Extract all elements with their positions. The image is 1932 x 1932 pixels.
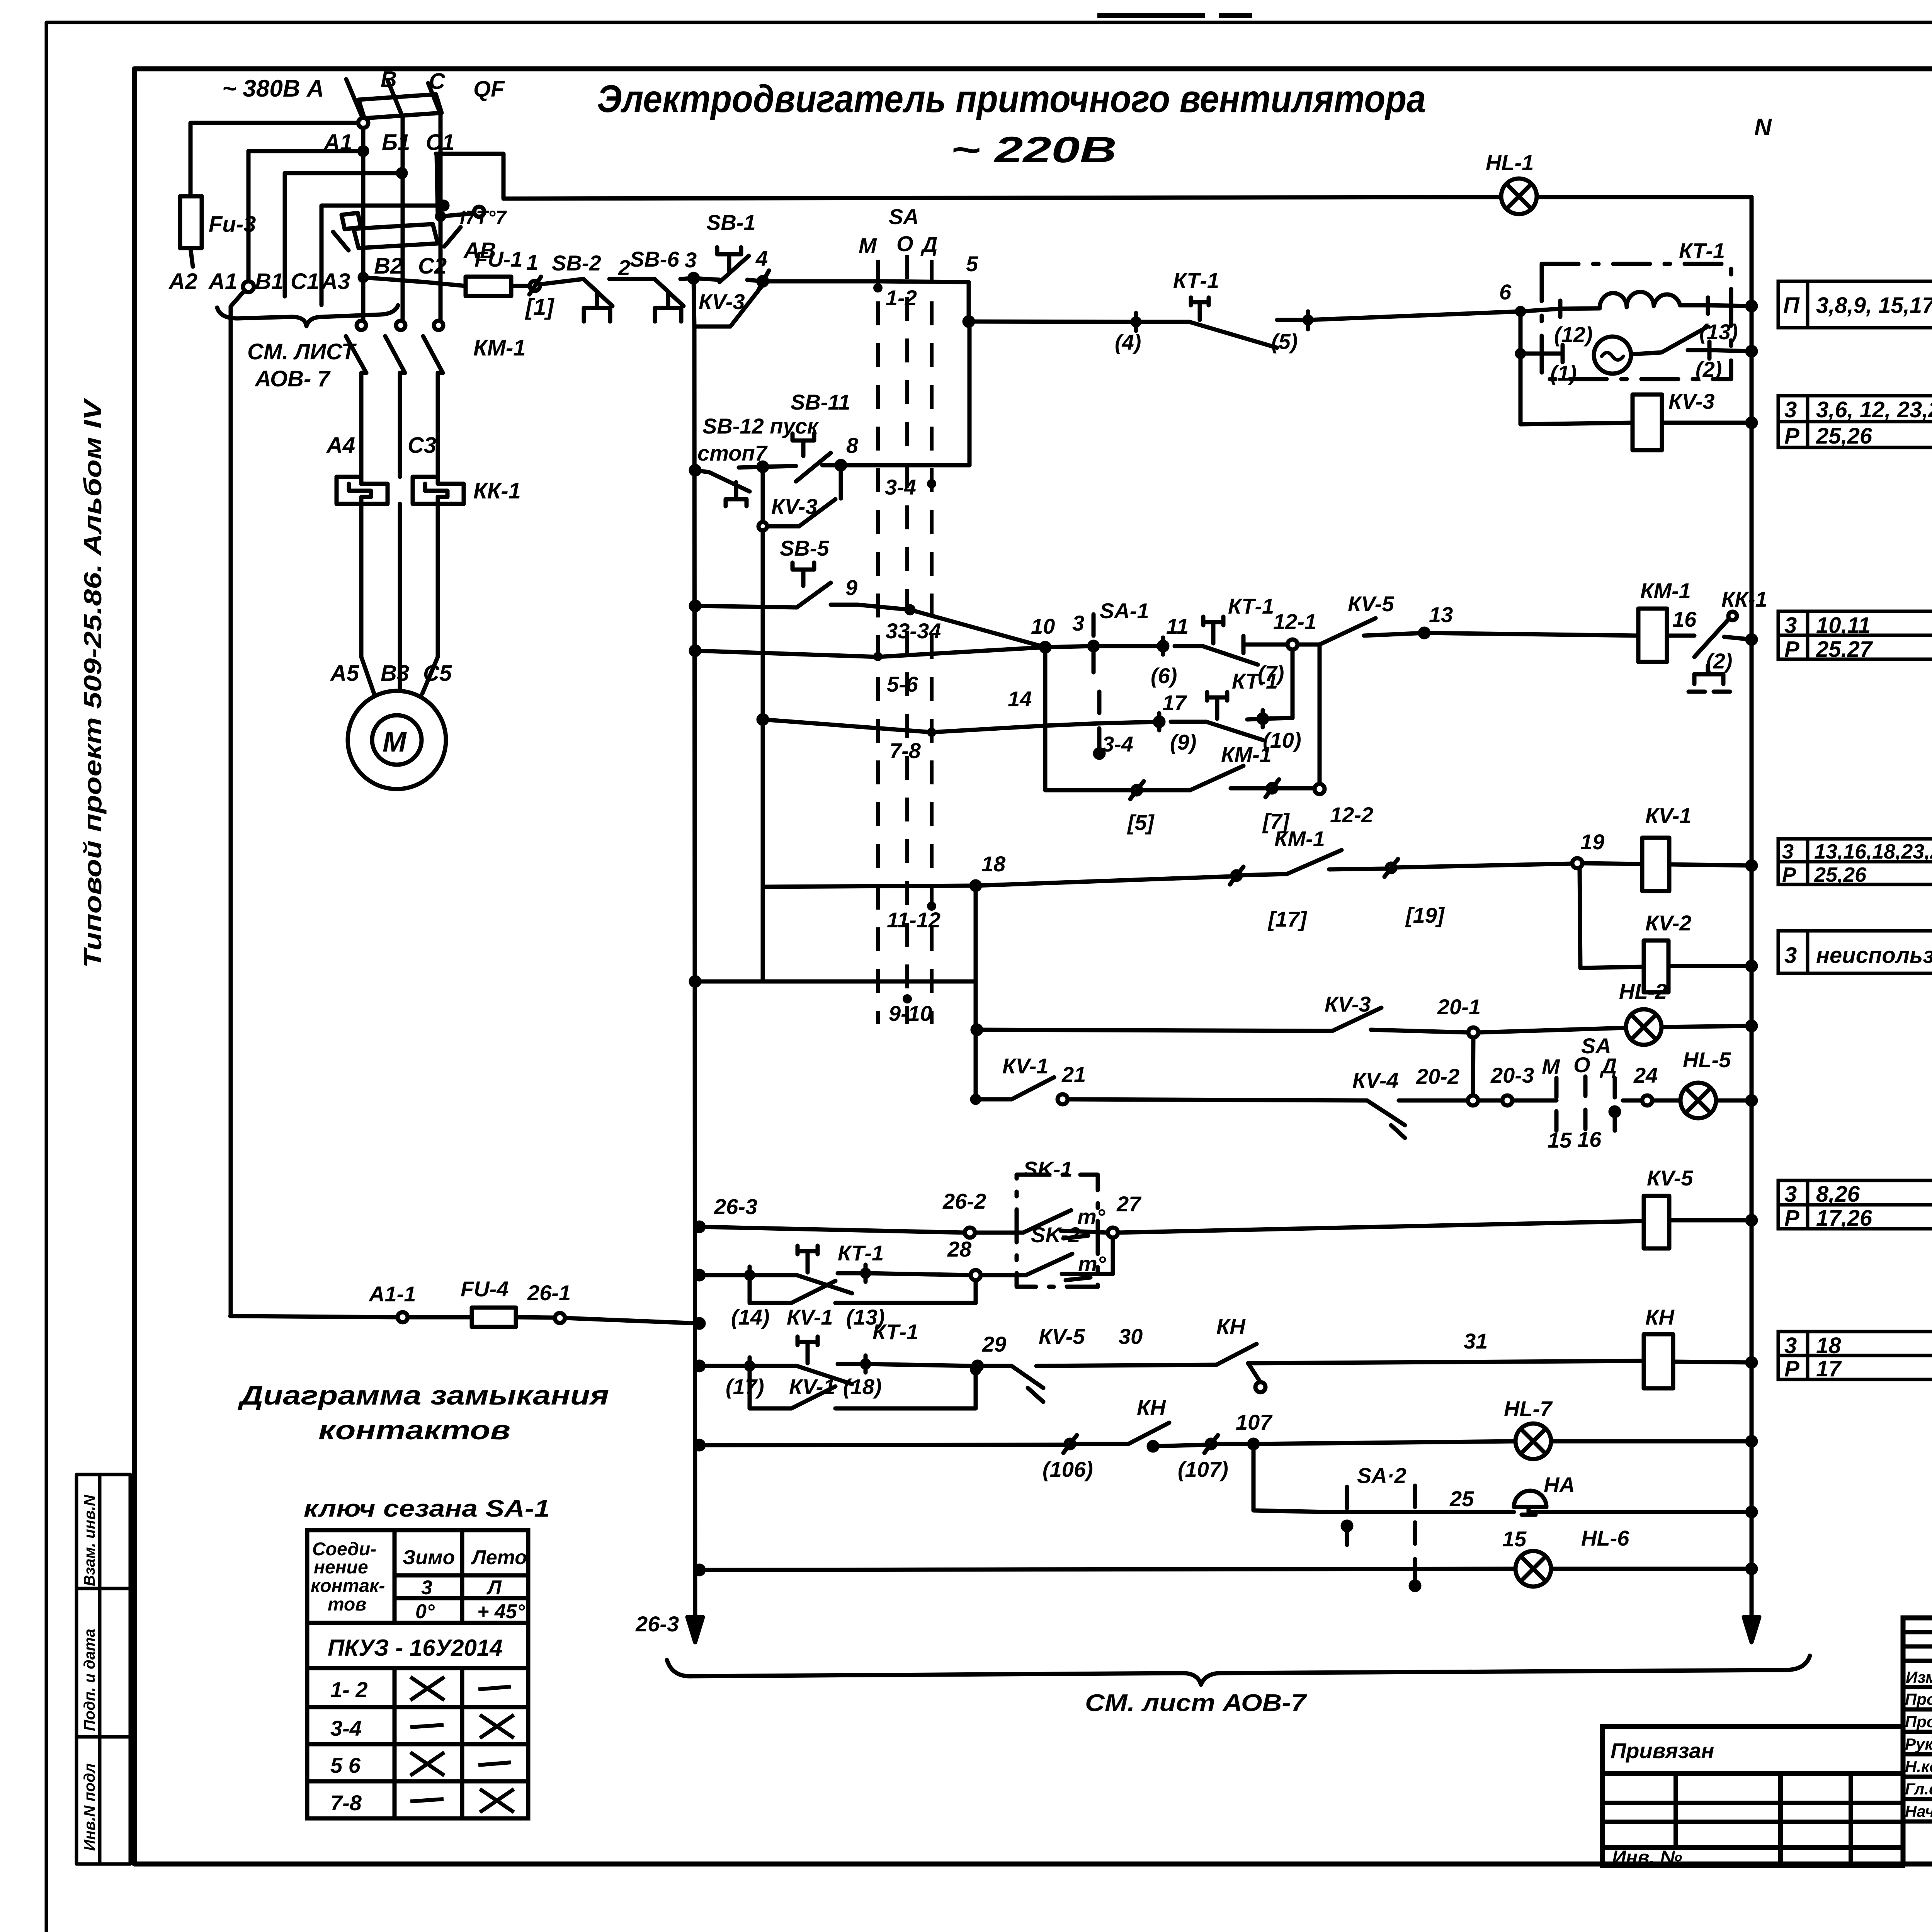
svg-text:Н.контр.: Н.контр. xyxy=(1905,1757,1932,1776)
svg-text:3: 3 xyxy=(1784,1182,1797,1207)
svg-text:25: 25 xyxy=(1449,1486,1474,1511)
wire 27 to KV-5 coil xyxy=(1118,1221,1644,1233)
svg-text:(17): (17) xyxy=(726,1374,764,1399)
svg-text:КV-1: КV-1 xyxy=(1645,803,1692,828)
wire down to KV-3 coil xyxy=(1520,354,1633,424)
wire C1 stub xyxy=(321,206,444,305)
svg-text:5: 5 xyxy=(966,252,978,276)
svg-text:3-4: 3-4 xyxy=(885,475,916,499)
rung 25 bell xyxy=(1327,1510,1514,1514)
svg-text:16: 16 xyxy=(1577,1127,1602,1151)
wire to FU-1 xyxy=(363,277,466,286)
contact SK-2 xyxy=(981,1273,1026,1277)
phase A wire xyxy=(361,118,366,321)
svg-text:КТ-1: КТ-1 xyxy=(1679,238,1725,263)
node 6 xyxy=(1517,308,1524,315)
svg-text:12-1: 12-1 xyxy=(1273,609,1316,634)
top rail to N xyxy=(436,154,1752,199)
svg-text:С5: С5 xyxy=(423,661,452,686)
wire rung 5-6 xyxy=(969,321,1136,322)
contact KV-4 xyxy=(1367,1100,1405,1125)
node C tap xyxy=(398,169,406,177)
svg-text:16: 16 xyxy=(1672,607,1697,631)
N rail arrow xyxy=(1750,1571,1754,1634)
svg-text:КV-4: КV-4 xyxy=(1352,1068,1399,1092)
circuit breaker QF body xyxy=(359,94,442,118)
svg-text:33-34: 33-34 xyxy=(886,619,941,643)
svg-text:(18): (18) xyxy=(843,1374,882,1399)
svg-text:SA: SA xyxy=(889,204,919,229)
svg-text:А1: А1 xyxy=(208,269,237,294)
svg-text:КН: КН xyxy=(1645,1305,1675,1329)
svg-text:1: 1 xyxy=(526,250,538,274)
rung 8: button SB-12 xyxy=(691,466,699,474)
wire 20-1 to 20-2 xyxy=(1473,1037,1473,1095)
contact KV-1 xyxy=(976,1097,1012,1102)
node B1 tap xyxy=(359,147,367,155)
stamp boxes left margin xyxy=(77,1475,130,1864)
svg-text:26-1: 26-1 xyxy=(527,1281,571,1305)
thermal relay KK-1 heater A xyxy=(337,477,388,504)
svg-text:[1]: [1] xyxy=(525,294,554,320)
svg-text:КV-3: КV-3 xyxy=(771,494,818,519)
rung 28 / SK-2 xyxy=(695,1271,704,1279)
svg-text:т°: т° xyxy=(1077,1204,1105,1229)
terminal 20-3 xyxy=(1502,1095,1512,1105)
svg-text:(106): (106) xyxy=(1043,1457,1093,1481)
vertical to SB-5 xyxy=(761,530,765,981)
svg-text:КН: КН xyxy=(1216,1314,1246,1338)
contact KT-1 delayed xyxy=(1203,617,1223,643)
node C control tap xyxy=(437,213,444,220)
svg-text:(2): (2) xyxy=(1706,649,1732,673)
svg-text:А2: А2 xyxy=(168,269,197,294)
ref box P 3,8,9,15,17 xyxy=(1778,281,1932,328)
KT-1 coil winding xyxy=(1520,308,1600,311)
lower labels xyxy=(368,1157,1693,1716)
svg-text:КV-5: КV-5 xyxy=(1348,592,1394,616)
svg-text:ключ сезана SА-1: ключ сезана SА-1 xyxy=(304,1495,550,1522)
node 12-2 xyxy=(1315,784,1325,794)
svg-text:Диаграмма замыкания: Диаграмма замыкания xyxy=(238,1380,609,1410)
svg-text:Начото: Начото xyxy=(1905,1802,1932,1820)
node 29 xyxy=(973,1362,982,1370)
rung 21 xyxy=(972,1096,979,1103)
svg-text:КV-3: КV-3 xyxy=(1325,992,1371,1016)
rung 9 xyxy=(831,605,1045,647)
middle labels xyxy=(697,390,1767,1152)
svg-text:Привязан: Привязан xyxy=(1611,1738,1714,1763)
svg-text:(4): (4) xyxy=(1115,330,1141,354)
contact KH NO xyxy=(1128,1423,1169,1444)
svg-text:КV-1: КV-1 xyxy=(787,1305,833,1329)
contact KV-3 xyxy=(1332,1008,1381,1031)
svg-text:20-2: 20-2 xyxy=(1416,1064,1459,1088)
svg-text:КТ-1: КТ-1 xyxy=(872,1320,918,1344)
contact KV-5 break xyxy=(978,1364,1012,1368)
left control rail xyxy=(694,327,695,1634)
contact KT-1 xyxy=(798,1337,818,1363)
svg-text:(13): (13) xyxy=(1699,320,1738,344)
svg-text:21: 21 xyxy=(1061,1062,1086,1087)
svg-text:5-6: 5-6 xyxy=(887,672,918,696)
svg-text:9: 9 xyxy=(845,575,857,600)
svg-text:SB-2: SB-2 xyxy=(552,251,601,275)
svg-text:Л: Л xyxy=(486,1577,502,1599)
svg-text:9-10: 9-10 xyxy=(889,1001,932,1026)
terminal T7 xyxy=(474,207,484,217)
REFERENCE BOXES xyxy=(1778,281,1932,1379)
svg-text:КК-1: КК-1 xyxy=(473,478,521,503)
ref box 10,11 xyxy=(1778,611,1932,659)
svg-text:SB-5: SB-5 xyxy=(780,536,829,560)
svg-text:20-3: 20-3 xyxy=(1490,1063,1534,1087)
time relay KT-1 box xyxy=(1542,264,1731,379)
rung 26-3 / SK-1 / 27 xyxy=(695,1223,704,1231)
svg-text:В3: В3 xyxy=(381,661,409,686)
wires to heaters xyxy=(361,373,366,477)
svg-text:N: N xyxy=(1754,114,1772,141)
svg-text:0°: 0° xyxy=(415,1600,435,1623)
TITLE BLOCK xyxy=(1903,1618,1932,1864)
svg-text:FU-1: FU-1 xyxy=(474,247,522,271)
svg-text:КМ-1: КМ-1 xyxy=(1221,742,1272,767)
svg-text:10,11: 10,11 xyxy=(1816,613,1871,638)
svg-text:~ 220В: ~ 220В xyxy=(951,129,1117,170)
svg-text:26-3: 26-3 xyxy=(714,1194,757,1219)
svg-text:В: В xyxy=(381,67,397,92)
node 12-1 xyxy=(1287,639,1298,650)
svg-text:(12): (12) xyxy=(1554,322,1593,347)
terminal 20-2 xyxy=(1468,1095,1478,1105)
svg-text:19: 19 xyxy=(1580,830,1604,854)
svg-text:27: 27 xyxy=(1116,1192,1142,1216)
svg-text:(1): (1) xyxy=(1550,361,1577,385)
rung 29 xyxy=(695,1362,704,1370)
node A1 xyxy=(358,118,368,128)
sensor box SK-1/SK-2 xyxy=(1017,1175,1098,1287)
svg-text:7-8: 7-8 xyxy=(889,738,921,763)
svg-text:3: 3 xyxy=(1784,613,1797,638)
svg-text:13,16,18,23,26: 13,16,18,23,26 xyxy=(1814,840,1932,863)
svg-text:4: 4 xyxy=(755,246,768,270)
node 13 xyxy=(1420,629,1429,637)
svg-text:А1-1: А1-1 xyxy=(368,1282,416,1306)
scan artifact dash top center xyxy=(1097,13,1205,18)
svg-text:Соеди-: Соеди- xyxy=(312,1539,376,1560)
svg-text:Инв. №: Инв. № xyxy=(1612,1847,1682,1868)
relay coil KH xyxy=(1644,1334,1673,1388)
svg-text:С3: С3 xyxy=(408,433,436,458)
contact KV-3 seal-in loop xyxy=(761,467,765,522)
button SB-2 (NC) xyxy=(539,279,583,284)
svg-text:КТ-1: КТ-1 xyxy=(1232,669,1278,693)
motor M xyxy=(348,691,446,789)
svg-text:25.27: 25.27 xyxy=(1816,637,1873,662)
svg-text:П: П xyxy=(1783,293,1800,318)
svg-text:Подп. и дата: Подп. и дата xyxy=(81,1629,98,1731)
switch SA season dashes xyxy=(1554,1078,1559,1134)
svg-text:11: 11 xyxy=(1166,614,1189,638)
fuse FU-1 xyxy=(466,277,511,296)
control top labels xyxy=(474,114,1772,413)
svg-text:Р: Р xyxy=(1784,423,1799,449)
wire 14 up to 12-1 xyxy=(1291,650,1295,718)
svg-text:КТ-1: КТ-1 xyxy=(1173,268,1219,293)
svg-text:30: 30 xyxy=(1119,1324,1143,1349)
ref box 18/17 xyxy=(1778,1332,1932,1379)
ref box 3/P 25,26 xyxy=(1778,396,1932,447)
svg-text:КМ-1: КМ-1 xyxy=(1274,827,1325,851)
terminal 1 xyxy=(530,281,540,291)
contact SA-1 xyxy=(1045,646,1094,647)
svg-text:Б1: Б1 xyxy=(382,130,410,155)
contact KT-1 lower xyxy=(1207,692,1227,719)
relay coil KV-2 branch xyxy=(1580,868,1644,968)
fuse FU-3 xyxy=(180,196,202,248)
KT-1 sync motor xyxy=(1519,311,1523,354)
wire A1 tap to FU-3 xyxy=(190,123,358,196)
svg-text:15: 15 xyxy=(1502,1527,1527,1551)
svg-text:С1: С1 xyxy=(426,130,454,155)
svg-text:стоп7: стоп7 xyxy=(697,441,768,465)
svg-text:КV-1: КV-1 xyxy=(1002,1054,1049,1078)
svg-text:[5]: [5] xyxy=(1127,810,1155,835)
terminal 21 xyxy=(1058,1094,1068,1104)
svg-text:М: М xyxy=(859,233,877,258)
svg-text:неиспольз.: неиспольз. xyxy=(1816,943,1932,968)
svg-text:(2): (2) xyxy=(1696,357,1722,381)
svg-text:14: 14 xyxy=(1008,687,1032,711)
svg-text:контактов: контактов xyxy=(318,1415,510,1445)
svg-text:Зимо: Зимо xyxy=(403,1546,455,1569)
wire 13 to KM-1 coil xyxy=(1424,633,1638,636)
svg-text:3: 3 xyxy=(1784,943,1797,968)
lamp HL-1 xyxy=(1501,179,1537,214)
contact SK-1 xyxy=(1023,1210,1071,1233)
phase B wire xyxy=(401,116,405,321)
svg-text:6: 6 xyxy=(1499,280,1512,304)
thermal relay KK-1 heater C xyxy=(413,477,464,504)
node 4 xyxy=(759,277,767,286)
svg-text:29: 29 xyxy=(982,1332,1006,1356)
svg-text:HL-6: HL-6 xyxy=(1581,1526,1629,1550)
svg-text:Проект: Проект xyxy=(1905,1690,1932,1708)
contact SA-1 lower xyxy=(1097,692,1102,755)
svg-text:КV-3: КV-3 xyxy=(1668,389,1715,413)
svg-text:КН: КН xyxy=(1137,1395,1166,1420)
svg-text:НА: НА xyxy=(1544,1473,1575,1497)
N rail xyxy=(1750,197,1754,1571)
svg-text:О: О xyxy=(896,231,913,256)
svg-text:8,26: 8,26 xyxy=(1816,1182,1860,1207)
svg-text:(9): (9) xyxy=(1170,730,1196,754)
svg-text:+ 45°: + 45° xyxy=(477,1600,526,1623)
contact (107) xyxy=(1207,1440,1215,1448)
svg-text:I7Т°7: I7Т°7 xyxy=(460,207,507,228)
key table symbols xyxy=(410,1677,514,1812)
contact KV-3 bypass of SB-1 xyxy=(694,278,730,327)
svg-text:SB-11: SB-11 xyxy=(791,390,850,414)
terminal 26-2 xyxy=(965,1228,975,1238)
svg-text:КМ-1: КМ-1 xyxy=(473,335,526,361)
svg-text:Электродвигатель приточного ве: Электродвигатель приточного вентилятора xyxy=(597,77,1426,121)
wire 26-1 xyxy=(555,1313,565,1323)
svg-text:[19]: [19] xyxy=(1405,903,1445,927)
terminal 24 xyxy=(1642,1095,1652,1105)
svg-text:24: 24 xyxy=(1633,1063,1658,1087)
svg-text:Д: Д xyxy=(920,232,937,257)
contact KT-1 (4)-(5) xyxy=(1134,313,1138,331)
svg-text:Инв.N подл: Инв.N подл xyxy=(81,1763,98,1851)
node 3 xyxy=(689,274,698,282)
svg-text:(14): (14) xyxy=(731,1305,770,1329)
terminal 27 xyxy=(1108,1228,1118,1238)
POWER CIRCUIT xyxy=(180,79,484,1316)
SA labels xyxy=(859,204,941,1026)
ref box 8,26 xyxy=(1778,1180,1932,1229)
wire B tap xyxy=(248,151,363,281)
svg-text:26-2: 26-2 xyxy=(942,1189,986,1213)
svg-text:КК-1: КК-1 xyxy=(1721,587,1767,611)
svg-text:12-2: 12-2 xyxy=(1330,803,1373,827)
svg-text:(6): (6) xyxy=(1151,663,1177,688)
svg-text:SK-2: SK-2 xyxy=(1031,1223,1080,1247)
node 11 xyxy=(1159,642,1167,650)
svg-text:КV-2: КV-2 xyxy=(1645,911,1692,935)
svg-text:А3: А3 xyxy=(321,269,350,294)
fuse FU-4 rung xyxy=(230,1316,398,1317)
svg-text:26-3: 26-3 xyxy=(635,1612,679,1636)
wire C tap xyxy=(285,173,402,296)
svg-text:28: 28 xyxy=(947,1237,972,1261)
button SB-11 xyxy=(763,466,796,467)
svg-text:1-2: 1-2 xyxy=(886,286,917,310)
node SB12/SB11 xyxy=(759,463,767,471)
svg-text:10: 10 xyxy=(1031,614,1055,638)
node 107 xyxy=(1249,1440,1258,1448)
svg-text:FU-4: FU-4 xyxy=(461,1277,509,1301)
wire 107 down xyxy=(1253,1444,1327,1512)
node 19 xyxy=(1572,858,1582,868)
svg-text:3: 3 xyxy=(1072,611,1084,635)
svg-text:А5: А5 xyxy=(330,661,359,686)
svg-text:А1: А1 xyxy=(323,130,352,155)
relay coil KV-5 xyxy=(1644,1196,1669,1248)
svg-text:Р: Р xyxy=(1782,863,1796,886)
start bypass vertical 5-8 xyxy=(968,319,972,465)
svg-text:SA-1: SA-1 xyxy=(1100,599,1149,623)
svg-text:HL-5: HL-5 xyxy=(1683,1048,1731,1072)
svg-text:Fu-3: Fu-3 xyxy=(209,212,256,237)
contact KH xyxy=(1216,1344,1257,1365)
node 8 xyxy=(837,461,845,469)
svg-text:25,26: 25,26 xyxy=(1816,423,1872,449)
svg-text:18: 18 xyxy=(981,852,1006,876)
svg-text:SB-6: SB-6 xyxy=(630,247,679,271)
rung 10 xyxy=(691,646,699,655)
svg-text:КV-5: КV-5 xyxy=(1039,1324,1085,1349)
svg-text:3: 3 xyxy=(685,248,697,272)
switch SA-2 dashes xyxy=(1345,1487,1349,1551)
svg-text:(107): (107) xyxy=(1178,1457,1228,1481)
svg-text:8: 8 xyxy=(846,433,859,457)
svg-text:СМ. ЛИСТ: СМ. ЛИСТ xyxy=(247,339,357,364)
svg-text:3: 3 xyxy=(1782,840,1794,863)
svg-text:Гл.спец: Гл.спец xyxy=(1905,1780,1932,1798)
contact aux 2 xyxy=(1387,864,1395,872)
ATTACH BLOCK (Привязан) xyxy=(1602,1726,1903,1866)
svg-text:[17]: [17] xyxy=(1267,907,1308,931)
svg-text:тов: тов xyxy=(328,1594,366,1615)
node 5 corner xyxy=(763,281,969,321)
svg-text:Р: Р xyxy=(1784,1356,1799,1381)
svg-text:Взам. инв.N: Взам. инв.N xyxy=(81,1495,98,1586)
node A3 control tap xyxy=(360,274,367,281)
rung KV-3 signal xyxy=(973,1026,981,1034)
svg-text:КТ-1: КТ-1 xyxy=(838,1241,884,1265)
rung KH signal xyxy=(695,1441,704,1449)
SA switch dashed column xyxy=(878,255,932,1024)
svg-text:КМ-1: КМ-1 xyxy=(1640,578,1691,603)
svg-text:КV-3: КV-3 xyxy=(699,289,745,314)
svg-text:SB-1: SB-1 xyxy=(706,210,756,235)
svg-text:М: М xyxy=(1542,1054,1560,1079)
svg-text:2: 2 xyxy=(618,255,630,280)
svg-text:А4: А4 xyxy=(326,433,355,458)
svg-text:17,26: 17,26 xyxy=(1816,1206,1872,1231)
rung 18 xyxy=(763,886,976,887)
svg-text:КV-5: КV-5 xyxy=(1647,1166,1693,1190)
svg-text:SK-1: SK-1 xyxy=(1023,1157,1073,1181)
svg-text:107: 107 xyxy=(1236,1410,1273,1434)
button SB-5 xyxy=(691,602,699,610)
svg-text:HL-2: HL-2 xyxy=(1619,979,1667,1003)
CONTROL LOWER xyxy=(230,1175,1810,1685)
svg-text:3: 3 xyxy=(421,1577,432,1599)
svg-text:Рук. гр.: Рук. гр. xyxy=(1905,1735,1932,1753)
power circuit labels xyxy=(168,67,526,758)
wire rail to 18 vertical xyxy=(691,977,699,986)
svg-text:5 6: 5 6 xyxy=(330,1753,361,1777)
button SB-6 (NC) xyxy=(655,279,684,306)
AB slashes xyxy=(333,232,349,250)
rung 14 xyxy=(759,715,767,724)
contactor KM-1 main contacts xyxy=(357,321,366,330)
svg-text:3-4: 3-4 xyxy=(330,1716,362,1740)
ref box 13,16,18,23,26 xyxy=(1778,839,1932,884)
svg-text:3,6, 12, 23,26: 3,6, 12, 23,26 xyxy=(1816,397,1932,422)
svg-text:SB-12 пуск: SB-12 пуск xyxy=(702,414,819,438)
svg-text:HL-7: HL-7 xyxy=(1504,1396,1553,1421)
button SB-1 xyxy=(694,278,719,280)
bell HA xyxy=(1514,1491,1546,1515)
svg-text:15: 15 xyxy=(1548,1128,1572,1152)
svg-text:Лето: Лето xyxy=(471,1546,527,1569)
node 20-1 xyxy=(1468,1027,1478,1037)
svg-text:17: 17 xyxy=(1162,690,1187,715)
motor leads xyxy=(361,504,374,694)
svg-text:(5): (5) xyxy=(1271,329,1298,354)
svg-text:КТ-1: КТ-1 xyxy=(1228,594,1274,618)
contactor coil KM-1 xyxy=(1638,609,1667,662)
svg-text:КV-1: КV-1 xyxy=(789,1374,835,1399)
lamp HL-5 xyxy=(1680,1083,1716,1118)
terminal 28 xyxy=(971,1270,981,1280)
thermal contact KK-1 xyxy=(1667,634,1694,638)
CONTROL CIRCUIT TOP xyxy=(360,154,1759,1642)
svg-text:Провер: Провер xyxy=(1905,1713,1932,1731)
